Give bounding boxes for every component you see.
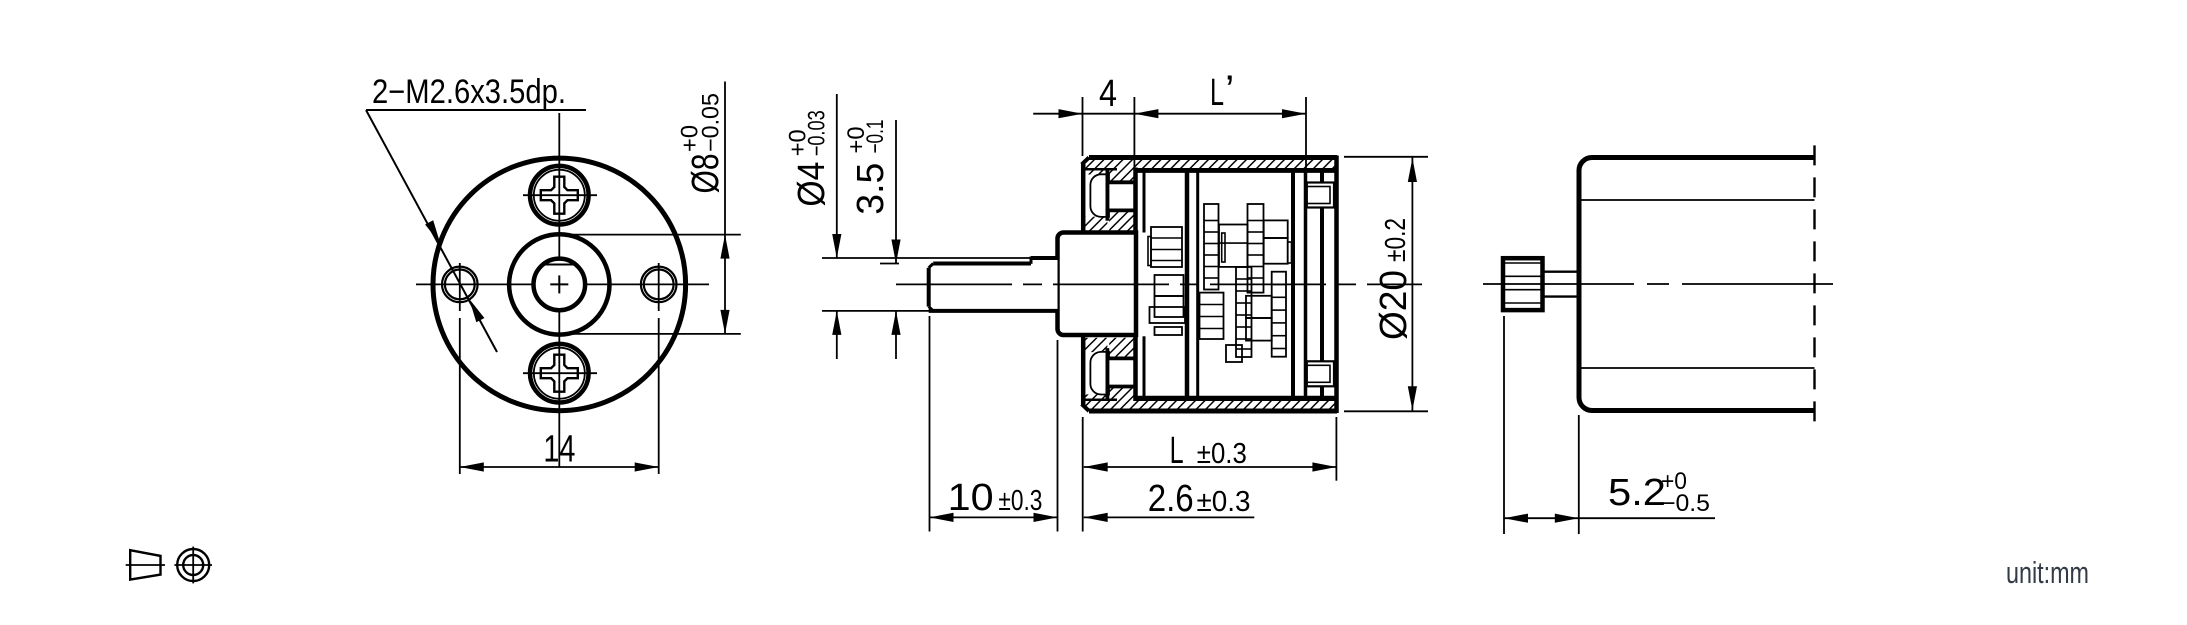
knurl line 3 [1503, 289, 1543, 291]
gear stage3 teeth column [1200, 293, 1224, 339]
dim 4 extension right [1133, 97, 1135, 169]
top screw head inner circle [534, 170, 585, 221]
dim L dimension line [1084, 466, 1337, 468]
dim L right arrow [1312, 462, 1336, 471]
shaft end edge [927, 268, 931, 307]
dim L extension left [1082, 417, 1084, 532]
svg-text:Ø20: Ø20 [1373, 270, 1415, 340]
dim 4 extension left [1082, 97, 1084, 156]
right view break line dashed [1813, 145, 1815, 422]
right wall line [1320, 171, 1324, 398]
dim dia4/3.5 extension bottom [822, 310, 929, 312]
dim 3.5 lower arrow [891, 311, 900, 335]
dim 10 left arrow [930, 513, 954, 522]
svg-text:L: L [1210, 72, 1224, 114]
svg-text:±0.2: ±0.2 [1380, 218, 1412, 262]
lower bezel window [1109, 360, 1134, 386]
knurled shaft knob [1503, 258, 1543, 310]
gear stage1 teeth column [1204, 204, 1219, 290]
top screw phillips recess [541, 177, 578, 214]
gear stage4 flange lower [1246, 318, 1272, 341]
knurl line 4 [1503, 302, 1543, 304]
shaft end bottom chamfer [929, 307, 934, 311]
dim dia20 dimension line [1411, 157, 1413, 411]
front view: leader line for thread callout [366, 110, 497, 352]
dim dia4 extension top [822, 257, 1032, 259]
bottom screw head inner circle [534, 348, 585, 399]
top screw head outer circle [530, 166, 589, 225]
dim 10 extension mid [1057, 340, 1059, 532]
right hole vertical centerline [658, 263, 660, 311]
lower terminal block [1307, 361, 1334, 386]
gear stage2 flange upper [1264, 220, 1288, 238]
motor gear left sliver [1148, 237, 1151, 266]
projection symbol outer circle [177, 549, 209, 581]
front view: label underline [366, 109, 586, 111]
svg-text:L: L [1170, 430, 1184, 472]
right view horizontal centerline [1483, 283, 1837, 285]
shaft hole circle [534, 259, 586, 311]
right tapped hole inner circle [644, 270, 674, 300]
knurl line 2 [1503, 275, 1543, 277]
knurl line 1 [1503, 262, 1543, 264]
chamber floor line [1134, 396, 1335, 399]
front view vertical centerline [558, 113, 560, 259]
dim dia8 extension line bottom [560, 333, 741, 335]
svg-text:2−M2.6x3.5dp.: 2−M2.6x3.5dp. [372, 73, 566, 111]
projection symbol vertical centerline [192, 547, 194, 584]
dim dia4 upper arrow [832, 234, 841, 258]
upper mounting slot hole [1090, 174, 1109, 217]
shaft boss [1058, 233, 1137, 336]
dim dia4 dimension line [836, 94, 838, 258]
svg-text:’: ’ [1225, 66, 1234, 113]
dim dia20 extension top [1344, 156, 1428, 158]
front bearing plate left line [1133, 168, 1138, 402]
rear plate right line [1304, 169, 1308, 400]
dim 10 right arrow [1034, 513, 1058, 522]
gearbox bottom cap hatched strip [1082, 400, 1337, 412]
dim dia8 extension line top [560, 234, 741, 236]
motor gear lower flange [1150, 307, 1186, 323]
gearbox bottom edge [1089, 409, 1337, 414]
dim 5.2 extension right [1578, 415, 1580, 534]
shaft bottom edge [929, 309, 1058, 313]
motor pinion hub upper [1155, 275, 1184, 296]
shaft end top chamfer [929, 264, 934, 268]
gear stage2 right sliver [1288, 242, 1292, 263]
shaft flat chord [543, 264, 576, 266]
dim dia20 extension bottom [1344, 410, 1428, 412]
dim 2.6 dimension line [1084, 516, 1255, 518]
shaft stem top line [1543, 271, 1580, 273]
dim 2.6 arrow [1084, 513, 1108, 522]
dim 3.5 dimension line [895, 120, 897, 264]
svg-text:−0.1: −0.1 [862, 120, 889, 154]
dim 4 arrow right-pointing [1059, 109, 1083, 118]
projection symbol horizontal centerline [174, 564, 212, 566]
center boss ring outer circle [509, 234, 609, 334]
left hole vertical centerline [459, 263, 461, 311]
gearbox top cap hatched strip [1082, 157, 1337, 169]
gear stage4 flange upper [1246, 296, 1272, 318]
leader arrowhead at outer circle [425, 220, 440, 243]
lower mounting slot hole [1090, 352, 1109, 395]
mid plate right line [1196, 169, 1199, 400]
right tapped hole outer circle [641, 267, 677, 303]
gear stage4 teeth column [1236, 267, 1252, 357]
dim 4 dimension line with tail [1033, 113, 1306, 115]
top screw horizontal centerline [523, 194, 597, 196]
upper bezel step bottom line [1107, 208, 1134, 212]
svg-text:Ø4: Ø4 [791, 162, 833, 207]
right view lower feature line [1582, 367, 1815, 369]
svg-text:2.6: 2.6 [1148, 478, 1194, 520]
gear stage2 flange lower [1264, 238, 1288, 264]
projection symbol frustum [130, 550, 160, 579]
gearbox left face edge lower [1081, 336, 1086, 404]
rear plate left line [1291, 169, 1295, 400]
shaft stem bottom line [1543, 295, 1580, 297]
top cap inner boundary [1084, 168, 1117, 171]
dim 10 extension left [929, 316, 931, 532]
svg-text:−0.5: −0.5 [1661, 490, 1710, 517]
upper terminal block inner [1307, 187, 1330, 204]
gear stage2 teeth column [1248, 204, 1264, 293]
gear stage5 teeth column [1272, 272, 1286, 357]
dim dia8 up arrow [720, 235, 729, 259]
gearbox left face edge upper [1081, 164, 1086, 233]
projection symbol frustum centerline [126, 564, 165, 566]
svg-text:±0.3: ±0.3 [1197, 438, 1247, 470]
dim 5.2 left arrow [1504, 514, 1528, 523]
dim L' arrow left-pointing [1134, 109, 1158, 118]
svg-text:−0.05: −0.05 [698, 93, 725, 152]
dim dia8 dimension line [724, 82, 726, 335]
dim 10 dimension line [930, 516, 1058, 518]
left tapped hole outer circle [442, 267, 478, 303]
svg-text:±0.3: ±0.3 [998, 485, 1042, 517]
gearbox top edge [1089, 155, 1337, 160]
motor pinion hub lower [1155, 296, 1184, 317]
dim 3.5 extension top [880, 263, 899, 265]
gear stage1 flange [1219, 225, 1248, 267]
dim 5.2 right arrow [1555, 514, 1579, 523]
gearbox bottom-left chamfer [1082, 404, 1089, 411]
dim dia20 up arrow [1408, 158, 1417, 182]
front bezel upper hatched block [1084, 170, 1107, 175]
svg-text:−0.03: −0.03 [804, 110, 831, 156]
bottom screw head outer circle [530, 344, 589, 403]
shaft step edge [1030, 257, 1033, 264]
chamber ceiling line [1134, 170, 1335, 173]
mid plate left line [1185, 169, 1190, 400]
upper bezel step top line [1107, 180, 1134, 184]
lower bezel step top line [1107, 356, 1134, 360]
svg-text:4: 4 [1099, 73, 1117, 115]
dim 14 dimension line [460, 466, 659, 468]
dim L' arrow right-pointing [1282, 109, 1306, 118]
svg-text:Ø8: Ø8 [685, 154, 727, 194]
dim L left arrow [1084, 462, 1108, 471]
lower terminal block inner [1307, 365, 1330, 382]
lower bezel step bottom line [1107, 385, 1134, 389]
gearbox right edge [1334, 156, 1339, 414]
upper slot cavity right wall [1106, 169, 1110, 221]
shaft flat top edge [933, 262, 1031, 266]
front view outer circle [433, 158, 686, 411]
svg-text:5.2: 5.2 [1608, 472, 1666, 514]
motor gear lower small block [1155, 327, 1183, 335]
gearbox top-left chamfer [1082, 158, 1089, 165]
dim dia4 lower arrow [832, 311, 841, 335]
bottom cap inner boundary [1084, 399, 1117, 402]
middle view horizontal centerline [896, 283, 1422, 285]
dim 14 right arrow [635, 462, 659, 471]
upper bezel window [1109, 184, 1134, 210]
dim dia8 down arrow [720, 310, 729, 334]
shaft full-dia top edge [1031, 256, 1058, 260]
dim 14 left arrow [460, 462, 484, 471]
motor gear teeth stack [1151, 227, 1182, 267]
lower slot cavity right wall [1106, 348, 1110, 399]
front bearing plate right line [1143, 171, 1146, 233]
dim 5.2 dimension line [1504, 517, 1715, 519]
dim L extension right [1335, 417, 1337, 481]
front view horizontal centerline [416, 283, 534, 285]
bottom screw horizontal centerline [523, 372, 597, 374]
gear lower small block [1226, 345, 1242, 362]
right view upper feature line [1582, 199, 1815, 201]
svg-text:10: 10 [948, 477, 994, 519]
shaft body [929, 258, 1058, 311]
projection symbol inner circle [183, 555, 203, 575]
bottom screw phillips recess [541, 355, 578, 392]
svg-text:unit:mm: unit:mm [2006, 555, 2089, 590]
svg-text:14: 14 [543, 428, 575, 470]
gear stage1 flange sliver [1222, 233, 1225, 262]
right view body outline [1579, 158, 1814, 411]
dim 5.2 extension left [1503, 316, 1505, 534]
center mark cross [550, 283, 568, 285]
left tapped hole inner circle [445, 270, 475, 300]
dim L' extension right [1305, 97, 1307, 169]
dim 3.5 upper arrow [891, 240, 900, 264]
dim dia20 down arrow [1408, 386, 1417, 410]
front bezel lower hatched block [1084, 394, 1107, 399]
svg-text:3.5: 3.5 [850, 163, 892, 215]
leader arrowhead at tapped hole [469, 299, 484, 322]
upper terminal block [1307, 183, 1334, 208]
svg-text:±0.3: ±0.3 [1197, 486, 1251, 518]
